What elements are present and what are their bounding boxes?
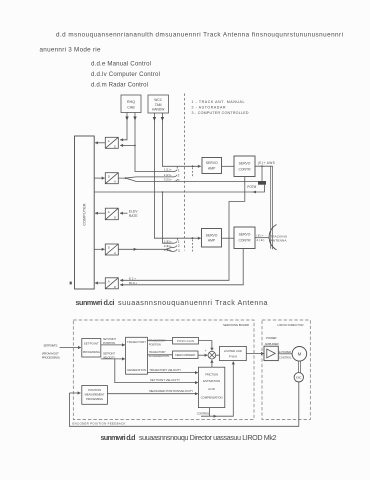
- wire pot tap: [261, 166, 263, 181]
- svg-text:D: D: [114, 216, 117, 220]
- switch1 contact labels: [164, 168, 172, 182]
- svg-text:RHQ: RHQ: [127, 100, 135, 104]
- wire motor to encoder: [298, 361, 300, 373]
- servo contr 2: [234, 227, 255, 249]
- svg-text:E2+: E2+: [129, 276, 136, 280]
- svg-text:D: D: [108, 174, 111, 178]
- wire encoder feedback: [69, 382, 298, 426]
- DAC row2: [105, 173, 118, 184]
- potentiometer POTM: [258, 181, 266, 185]
- svg-text:WCC: WCC: [154, 98, 162, 102]
- svg-text:POWER: POWER: [266, 336, 277, 340]
- svg-text:POSITION: POSITION: [103, 341, 115, 345]
- converter boxes column: [105, 137, 118, 288]
- svg-text:CONTR: CONTR: [238, 168, 251, 172]
- svg-text:SET POINT: SET POINT: [103, 337, 116, 341]
- wire encoder into posmeas: [69, 392, 80, 394]
- shaft to antenna (double line): [271, 166, 273, 249]
- svg-text:A: A: [108, 210, 110, 214]
- wire set point velocity: [115, 359, 198, 383]
- wire computer to DAC4: [94, 248, 104, 250]
- wire HANDW right output (az main): [162, 113, 200, 167]
- converter letter labels: [108, 139, 117, 289]
- svg-text:A: A: [114, 251, 116, 255]
- ADC row5: [105, 278, 118, 289]
- svg-text:CONTROL: CONTROL: [279, 357, 292, 360]
- svg-text:PWM: PWM: [229, 354, 238, 358]
- svg-text:A: A: [114, 180, 116, 184]
- power amplifier box: [264, 346, 278, 360]
- motor M: [292, 347, 307, 362]
- svg-text:AMPLIFIER: AMPLIFIER: [265, 342, 279, 346]
- svg-text:1(1)+: 1(1)+: [164, 168, 172, 172]
- feedforward box: [173, 351, 199, 359]
- svg-text:COMPUTER: COMPUTER: [83, 203, 87, 225]
- svg-text:ENC: ENC: [296, 377, 301, 380]
- svg-text:POTM: POTM: [247, 185, 256, 189]
- wire setpoint position: [101, 344, 125, 346]
- svg-text:E POWER: E POWER: [279, 351, 291, 354]
- svg-text:anuennri 3 Mode rie: anuennri 3 Mode rie: [40, 46, 101, 53]
- switch1 contact hooks and numerals: [174, 166, 178, 181]
- wire trajectory velocity: [147, 372, 198, 374]
- wire az output: [255, 165, 273, 167]
- switch2 contact labels: [164, 240, 172, 252]
- svg-text:d.d msnouquansennriananulth dm: d.d msnouquansennriananulth dmsuanuennri…: [56, 32, 343, 39]
- wire RHQ CAB left output: [120, 113, 127, 140]
- svg-text:B(1)+: B(1)+: [129, 281, 137, 285]
- svg-text:SERVO: SERVO: [206, 161, 218, 165]
- svg-text:2: 2: [178, 244, 180, 248]
- wire elev feedback from shaft: [120, 202, 245, 281]
- svg-text:sunmwri d.d: sunmwri d.d: [101, 433, 136, 442]
- svg-text:TRAJECTORY: TRAJECTORY: [149, 350, 166, 354]
- svg-text:POSITION: POSITION: [149, 342, 161, 346]
- svg-text:-: -: [213, 347, 214, 351]
- svg-text:GENERATION: GENERATION: [127, 368, 146, 372]
- wire limiter to power amp: [246, 353, 264, 355]
- svg-text:SERVOING BOARD: SERVOING BOARD: [223, 323, 250, 327]
- svg-text:TAM: TAM: [155, 103, 162, 107]
- svg-text:1: 1: [178, 168, 180, 172]
- svg-text:SET POINT VELOCITY: SET POINT VELOCITY: [150, 378, 180, 382]
- servo contr 1: [234, 156, 255, 177]
- svg-text:d.d.e Manual Control: d.d.e Manual Control: [91, 60, 151, 67]
- position measurement processing box: [82, 386, 108, 405]
- svg-text:POSN GAIN: POSN GAIN: [177, 339, 194, 343]
- wire HANDW left output (elev main): [154, 113, 200, 239]
- svg-text:3: 3: [178, 249, 180, 253]
- svg-text:A: A: [108, 279, 110, 283]
- svg-text:SERVO: SERVO: [206, 233, 218, 237]
- wire DAC4 output: [118, 248, 136, 250]
- wire pot feedback branch to switch2 contact1: [163, 192, 175, 243]
- friction estimation box: [198, 367, 224, 407]
- svg-text:PROCESSING): PROCESSING): [42, 355, 60, 359]
- svg-text:CONTR: CONTR: [238, 239, 251, 243]
- wire computer to DAC2: [94, 177, 104, 179]
- svg-text:CONTROL: CONTROL: [197, 411, 210, 415]
- svg-text:3(3)+: 3(3)+: [164, 178, 172, 182]
- wire branch to ADC1 input2: [120, 144, 135, 146]
- wire amp2 to contr2: [222, 237, 235, 239]
- wire DAC4 fan to contact2: [166, 247, 174, 249]
- wire RHQ CAB right output: [135, 113, 174, 172]
- svg-text:A(E): A(E): [256, 238, 264, 242]
- wire ELEV RATE input: [120, 212, 128, 214]
- svg-text:CAB: CAB: [127, 106, 135, 110]
- svg-text:PROCESSING: PROCESSING: [86, 397, 103, 401]
- svg-text:SETPOINTS: SETPOINTS: [43, 343, 57, 347]
- svg-text:M: M: [298, 352, 302, 357]
- svg-text:2: 2: [178, 174, 180, 178]
- computer unit box: [75, 136, 95, 289]
- svg-text:COMPENSATION: COMPENSATION: [201, 396, 223, 400]
- wire to feedforward: [147, 354, 172, 356]
- svg-text:FRICTION: FRICTION: [205, 372, 218, 376]
- svg-text:2(2)+: 2(2)+: [164, 173, 172, 177]
- wire gain to summing: [199, 341, 212, 351]
- wire to posn gain: [147, 340, 172, 342]
- wire pot lower feedback to computer: [95, 185, 265, 192]
- wire ADC5 to computer: [95, 282, 105, 284]
- svg-text:D: D: [114, 285, 117, 289]
- junction dots: [125, 145, 263, 240]
- summing junction: [208, 351, 216, 359]
- arrowheads on console output drops: [125, 117, 164, 122]
- svg-text:ESTIMATION: ESTIMATION: [203, 379, 220, 383]
- wire contr1 bottom output: [244, 177, 246, 202]
- svg-text:d.d.lv Computer Control: d.d.lv Computer Control: [91, 71, 160, 78]
- wire ADC3 to computer: [95, 212, 105, 214]
- svg-text:2 - AUTORADAR: 2 - AUTORADAR: [192, 106, 226, 110]
- wire friction comp to summing: [211, 360, 213, 367]
- svg-text:SETPOINT: SETPOINT: [103, 352, 115, 356]
- servo amp 1: [202, 158, 222, 174]
- svg-text:TRAJECTORY: TRAJECTORY: [127, 340, 146, 344]
- svg-text:FEED FORWARD: FEED FORWARD: [175, 353, 195, 357]
- svg-text:3: 3: [178, 179, 180, 183]
- svg-text:PROCESSING: PROCESSING: [83, 350, 100, 354]
- setpoint processing box: [82, 339, 101, 358]
- dashed mode line: [184, 94, 186, 251]
- svg-text:ANTENNA: ANTENNA: [271, 239, 288, 243]
- svg-text:SERVO: SERVO: [239, 162, 251, 166]
- svg-text:SERVO: SERVO: [239, 233, 251, 237]
- stray mark at computer box corner: [70, 282, 72, 285]
- svg-text:RATE: RATE: [129, 214, 139, 218]
- svg-text:AMP: AMP: [208, 167, 216, 171]
- svg-text:A: A: [108, 139, 110, 143]
- trajectory generation box: [126, 337, 148, 374]
- svg-text:3(E)+: 3(E)+: [164, 248, 172, 252]
- svg-text:(E)+ AWS: (E)+ AWS: [258, 161, 275, 165]
- servo amp 2: [202, 229, 222, 248]
- switch2 contact hooks and numerals: [174, 238, 178, 251]
- svg-text:ELEV: ELEV: [129, 209, 138, 213]
- svg-text:1 - TRACK ANT. MANUAL: 1 - TRACK ANT. MANUAL: [192, 100, 245, 104]
- svg-text:POSITION: POSITION: [88, 388, 101, 392]
- tracking antenna dish: [269, 225, 276, 250]
- svg-text:HANDW: HANDW: [152, 108, 165, 112]
- wire DAC2 fan and pot wiper line to contact3: [126, 178, 259, 181]
- box RHQ CAB: [121, 95, 141, 113]
- wire elev output to antenna: [255, 237, 269, 239]
- svg-text:+: +: [205, 349, 207, 353]
- wire control output: [201, 408, 217, 417]
- wire DAC2 fan to contact2: [118, 177, 174, 178]
- svg-text:AMP: AMP: [208, 239, 216, 243]
- ADC row1: [105, 137, 118, 148]
- svg-text:suuaasnnsnouquanuennri Track A: suuaasnnsnouquanuennri Track Antenna: [118, 298, 268, 307]
- svg-text:MEASUREMENT: MEASUREMENT: [85, 392, 105, 396]
- wire DAC4 fan to contact3: [166, 249, 174, 251]
- dashed gang link sw2: [191, 240, 193, 252]
- svg-text:ENCODER POSITION FEEDBACK: ENCODER POSITION FEEDBACK: [72, 422, 125, 426]
- svg-text:D: D: [114, 144, 117, 148]
- svg-text:3 - COMPUTER CONTROLLED: 3 - COMPUTER CONTROLLED: [192, 111, 249, 115]
- wire contr2 bottom output: [120, 249, 243, 285]
- wire feedforward to summing: [198, 354, 208, 356]
- wire summing to limiter: [216, 354, 220, 356]
- svg-text:sunmwri d.ci: sunmwri d.ci: [76, 298, 115, 307]
- wire ADC1 to computer: [95, 142, 105, 144]
- svg-text:suuaasnnsnouqu Director uassas: suuaasnnsnouqu Director uassasuu LIROD M…: [139, 433, 277, 442]
- box WCC TAM HANDW: [148, 95, 169, 113]
- dashed enclosure servoing board: [73, 320, 254, 420]
- limiter and pwm box: [220, 346, 247, 360]
- DAC row4: [105, 244, 118, 255]
- wire amp1 to contr1: [222, 165, 235, 167]
- dashed gang link sw1: [192, 168, 194, 178]
- svg-text:(E)+ -: (E)+ -: [256, 233, 266, 237]
- svg-text:LIMITER AND: LIMITER AND: [224, 349, 242, 353]
- svg-text:MEASURED POSITION/VELOCITY: MEASURED POSITION/VELOCITY: [149, 389, 193, 393]
- svg-text:d.d.m Radar Control: d.d.m Radar Control: [91, 82, 148, 89]
- svg-text:D: D: [108, 246, 111, 250]
- wire setpoints in: [60, 347, 81, 349]
- posn gain box: [173, 338, 199, 345]
- wire amp to motor: [278, 353, 292, 355]
- wire measured position: [107, 393, 197, 395]
- svg-text:AND: AND: [208, 387, 215, 391]
- svg-text:TRAJECTORY VELOCITY: TRAJECTORY VELOCITY: [149, 368, 181, 372]
- ADC row3: [105, 208, 118, 220]
- dashed enclosure lirod director: [262, 320, 310, 420]
- encoder ENC: [294, 373, 303, 382]
- wire setpoint velocity: [101, 358, 125, 360]
- svg-text:LIROD DIRECTOR: LIROD DIRECTOR: [278, 323, 305, 327]
- svg-text:SETPOINT: SETPOINT: [84, 342, 99, 346]
